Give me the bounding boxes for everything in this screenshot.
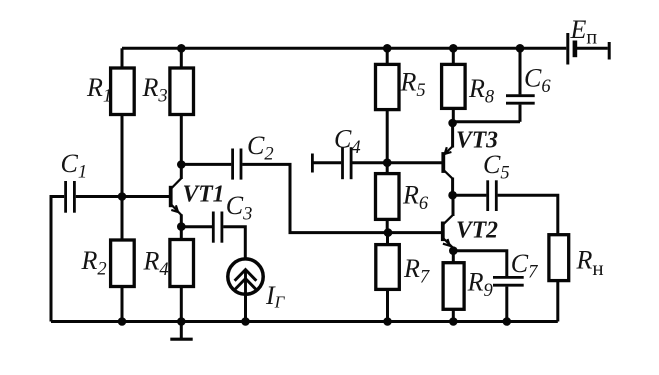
resistor R1 [86, 68, 134, 115]
transistor VT3 [443, 123, 498, 195]
node top rail at R3 [177, 44, 186, 53]
capacitor C5 [453, 150, 510, 211]
capacitor C2 [181, 131, 273, 180]
wire R3 top stem [180, 48, 183, 68]
wire bottom rail [51, 320, 558, 323]
svg-text:R4: R4 [143, 247, 169, 281]
capacitor C6 [453, 48, 552, 122]
resistor Rn load [549, 235, 604, 281]
node R8 C6 VT3 emitter junction [448, 119, 457, 128]
resistor R4 [143, 240, 194, 287]
node VT3 VT2 collectors C5 junction [448, 191, 457, 200]
svg-text:R2: R2 [81, 246, 107, 280]
svg-text:VT1: VT1 [183, 182, 225, 208]
svg-text:R8: R8 [468, 74, 495, 108]
wire left rail [50, 195, 53, 322]
resistor R8 [442, 64, 495, 108]
capacitor C3 [181, 191, 252, 243]
wire R2 top stem [121, 197, 124, 241]
resistor R3 [142, 68, 194, 115]
node top rail at R8 [449, 44, 458, 53]
wire C3 to current source [223, 227, 245, 258]
wire R9 top stem [452, 251, 455, 263]
node bottom at R9 [449, 317, 458, 326]
wire C1 to VT1 base [76, 195, 169, 198]
resistor R2 [81, 240, 135, 287]
node C1 R1 R2 junction [118, 192, 127, 201]
wire Rn bottom to rail corner [556, 281, 559, 322]
wire C4 to VT3 base [352, 161, 442, 164]
resistor R9 [443, 263, 493, 310]
svg-text:R5: R5 [400, 68, 426, 102]
wire C2 to corner down to VT2 base row [242, 164, 441, 232]
wire R2 bottom stem [121, 287, 124, 322]
wire R4 bottom stem [180, 287, 183, 322]
transistor VT1 [171, 165, 225, 227]
node top rail at R5 [383, 44, 392, 53]
node VT1 emitter [177, 222, 186, 231]
node top rail at C6 [516, 44, 525, 53]
node bottom at R4 ground [177, 317, 186, 326]
ground [170, 322, 192, 340]
node bottom at C7 [503, 317, 512, 326]
node bottom at R2 [118, 317, 127, 326]
node C4 R5 R6 junction [383, 158, 392, 167]
node VT1 collector [177, 160, 186, 169]
wire top supply rail [122, 47, 566, 50]
wire R1 top stem [121, 48, 124, 68]
svg-text:R7: R7 [403, 254, 430, 288]
svg-text:C3: C3 [226, 191, 253, 225]
svg-text:R6: R6 [402, 181, 429, 215]
svg-text:C2: C2 [247, 131, 274, 165]
svg-text:C1: C1 [61, 149, 88, 183]
svg-text:R9: R9 [467, 268, 493, 302]
capacitor C7 [453, 249, 538, 322]
wire R5 top stem [386, 48, 389, 64]
svg-text:C6: C6 [524, 64, 551, 98]
node R6 R7 VT2 base junction [384, 228, 393, 237]
battery Ep [568, 15, 609, 65]
transistor VT2 [443, 195, 498, 251]
capacitor C1 [51, 149, 87, 213]
node VT2 emitter R9 C7 junction [449, 246, 458, 255]
svg-text:Eп: Eп [570, 15, 598, 49]
wire C5 to load corner [498, 195, 558, 233]
resistor R6 [376, 174, 429, 220]
wire R7 top stem [386, 233, 389, 245]
resistor R7 [376, 245, 430, 290]
wire R3 bottom to collector node [180, 115, 183, 165]
svg-text:C5: C5 [483, 150, 510, 184]
wire R6 top stem [386, 163, 389, 174]
wire R8 top stem [452, 48, 455, 64]
current source IG [228, 259, 286, 312]
svg-text:R3: R3 [142, 73, 168, 107]
node bottom at R7 [383, 317, 392, 326]
wire R5 bottom stem [386, 110, 389, 163]
svg-text:R1: R1 [86, 73, 112, 107]
capacitor C4 with input terminal [312, 125, 360, 180]
wire R1 bottom to node [121, 115, 124, 197]
wire current source to bottom rail [244, 294, 247, 321]
svg-text:C4: C4 [334, 125, 361, 159]
wire R6 bottom stem [386, 219, 389, 232]
svg-text:VT2: VT2 [456, 218, 498, 244]
svg-text:Rн: Rн [576, 246, 604, 281]
resistor R5 [376, 64, 426, 109]
node bottom at current source [241, 317, 250, 326]
wire VT1 emitter to R4 [180, 227, 183, 241]
wire R9 bottom stem [452, 309, 455, 321]
svg-text:C7: C7 [511, 249, 538, 283]
svg-text:IГ: IГ [265, 281, 286, 312]
wire R8 bottom stem [452, 108, 455, 123]
wire R7 bottom stem [386, 289, 389, 321]
